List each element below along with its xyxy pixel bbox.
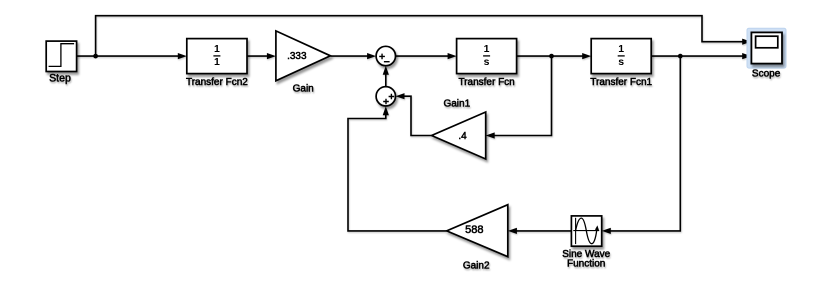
wire Sum output to Transfer Fcn input (396, 53, 457, 59)
svg-text:588: 588 (465, 224, 483, 236)
wire Gain1 output to Sum1 right input (396, 93, 432, 135)
svg-text:s: s (484, 56, 490, 68)
svg-text:1: 1 (618, 43, 624, 55)
label Sine Wave Function (562, 249, 610, 270)
wire Sine Wave Function output to Gain2 input (508, 228, 572, 234)
block Sine Wave Function (mirrored) (571, 216, 601, 246)
block Transfer Fcn1 (591, 39, 651, 74)
svg-text:Transfer Fcn1: Transfer Fcn1 (590, 77, 652, 88)
wire Transfer Fcn1 output to Scope input 2 (651, 53, 751, 59)
svg-text:Transfer Fcn2: Transfer Fcn2 (186, 77, 248, 88)
wire Gain2 output to Sum1 bottom input (348, 106, 447, 231)
sign minus of Sum bottom input (384, 61, 390, 63)
svg-text:Gain2: Gain2 (463, 260, 490, 271)
block Gain (triangle) (276, 31, 331, 81)
block Transfer Fcn2 (187, 39, 247, 74)
block Transfer Fcn (457, 39, 517, 74)
sign plus of Sum left input (379, 54, 385, 60)
wire Sum1 output up to Sum bottom input (383, 66, 389, 87)
svg-text:Transfer Fcn: Transfer Fcn (458, 77, 514, 88)
block Sum (circle, +-) (376, 46, 395, 65)
value 1/1 of Transfer Fcn2 (213, 43, 220, 68)
wire Transfer Fcn1 output down to Sine Wave Function input (602, 56, 681, 234)
wire Transfer Fcn output down to Gain1 input (486, 56, 552, 139)
svg-text:Gain: Gain (293, 84, 314, 95)
svg-text:1: 1 (484, 43, 490, 55)
wire top feedback from Step junction to Scope input 1 (96, 16, 752, 56)
node junction at Transfer Fcn1 output (678, 54, 683, 59)
svg-text:1: 1 (214, 56, 220, 68)
scope body (751, 32, 782, 63)
svg-text:.333: .333 (287, 51, 307, 62)
node junction at Transfer Fcn output (549, 54, 554, 59)
block Gain1 (triangle, mirrored) (432, 112, 486, 159)
wire Transfer Fcn2 output to Gain input (247, 53, 276, 59)
sign plus of Sum1 bottom input (383, 99, 389, 105)
value 1/s of Transfer Fcn1 (618, 43, 625, 68)
block Sum1 (circle, ++) (376, 87, 395, 106)
svg-text:.4: .4 (458, 131, 467, 142)
node junction at Step output (93, 54, 98, 59)
wire Gain output to Sum left input (330, 53, 376, 59)
block Gain2 (triangle, mirrored) (447, 205, 508, 257)
svg-text:1: 1 (214, 43, 220, 55)
value 1/s of Transfer Fcn (483, 43, 490, 68)
sign plus of Sum1 right input (389, 94, 395, 100)
block Step (46, 41, 76, 71)
svg-text:Gain1: Gain1 (443, 99, 470, 110)
svg-text:Scope: Scope (752, 68, 781, 79)
svg-text:Step: Step (49, 72, 71, 84)
wire Transfer Fcn output to Transfer Fcn1 input (517, 53, 592, 59)
svg-text:s: s (618, 56, 624, 68)
svg-text:Function: Function (567, 259, 605, 270)
wire Step output to Transfer Fcn2 input (77, 53, 187, 59)
block Scope (selected, blue highlight) (747, 28, 786, 68)
